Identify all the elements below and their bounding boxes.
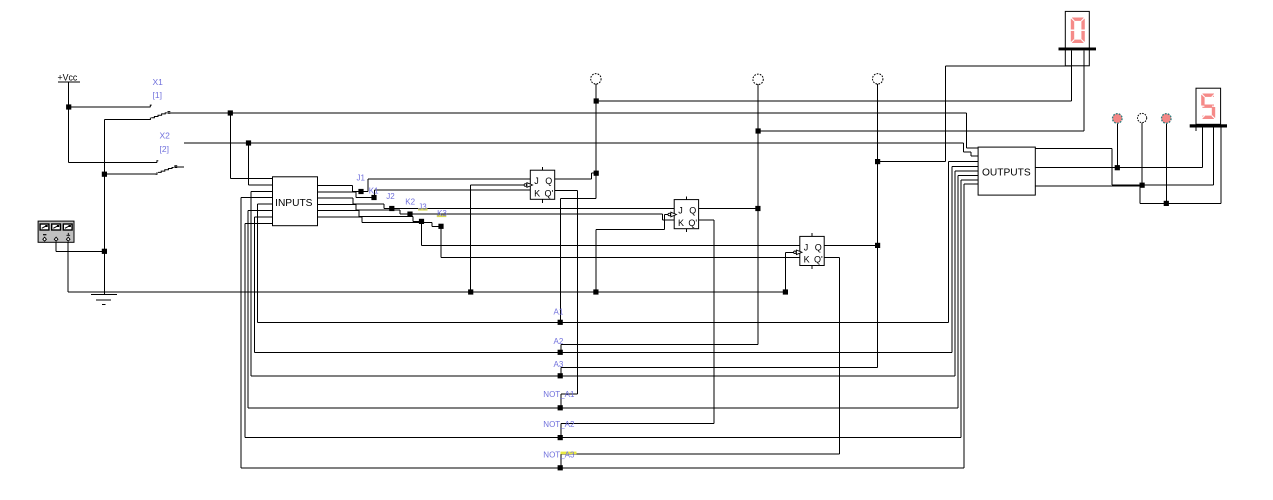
svg-text:NOT_A3: NOT_A3 <box>543 450 575 459</box>
svg-text:Q': Q' <box>545 188 554 198</box>
svg-text:A1: A1 <box>554 307 564 316</box>
svg-text:K: K <box>804 255 810 265</box>
svg-text:Q': Q' <box>814 255 823 265</box>
svg-text:NOT_A2: NOT_A2 <box>543 420 575 429</box>
svg-text:K: K <box>678 218 684 228</box>
svg-text:J: J <box>534 176 539 186</box>
svg-text:[1]: [1] <box>153 90 162 100</box>
svg-text:K3: K3 <box>437 209 447 218</box>
svg-text:J1: J1 <box>357 173 366 182</box>
svg-text:[2]: [2] <box>160 144 169 154</box>
svg-text:K: K <box>534 188 540 198</box>
svg-text:X1: X1 <box>153 77 164 87</box>
svg-text:K2: K2 <box>405 198 415 207</box>
svg-text:A2: A2 <box>554 337 564 346</box>
svg-text:Q: Q <box>689 206 696 216</box>
svg-text:Q: Q <box>545 176 552 186</box>
svg-text:A3: A3 <box>554 360 564 369</box>
svg-text:Q': Q' <box>688 218 697 228</box>
svg-text:INPUTS: INPUTS <box>275 198 313 209</box>
svg-text:NOT_A1: NOT_A1 <box>543 390 575 399</box>
svg-text:OUTPUTS: OUTPUTS <box>982 168 1031 179</box>
svg-text:X2: X2 <box>160 131 171 141</box>
svg-text:K1: K1 <box>369 186 379 195</box>
svg-text:Q: Q <box>815 242 822 252</box>
svg-text:+Vcc: +Vcc <box>58 73 78 83</box>
svg-text:J: J <box>678 206 683 216</box>
svg-text:J: J <box>804 242 809 252</box>
svg-text:J3: J3 <box>418 202 427 211</box>
svg-text:J2: J2 <box>386 192 395 201</box>
